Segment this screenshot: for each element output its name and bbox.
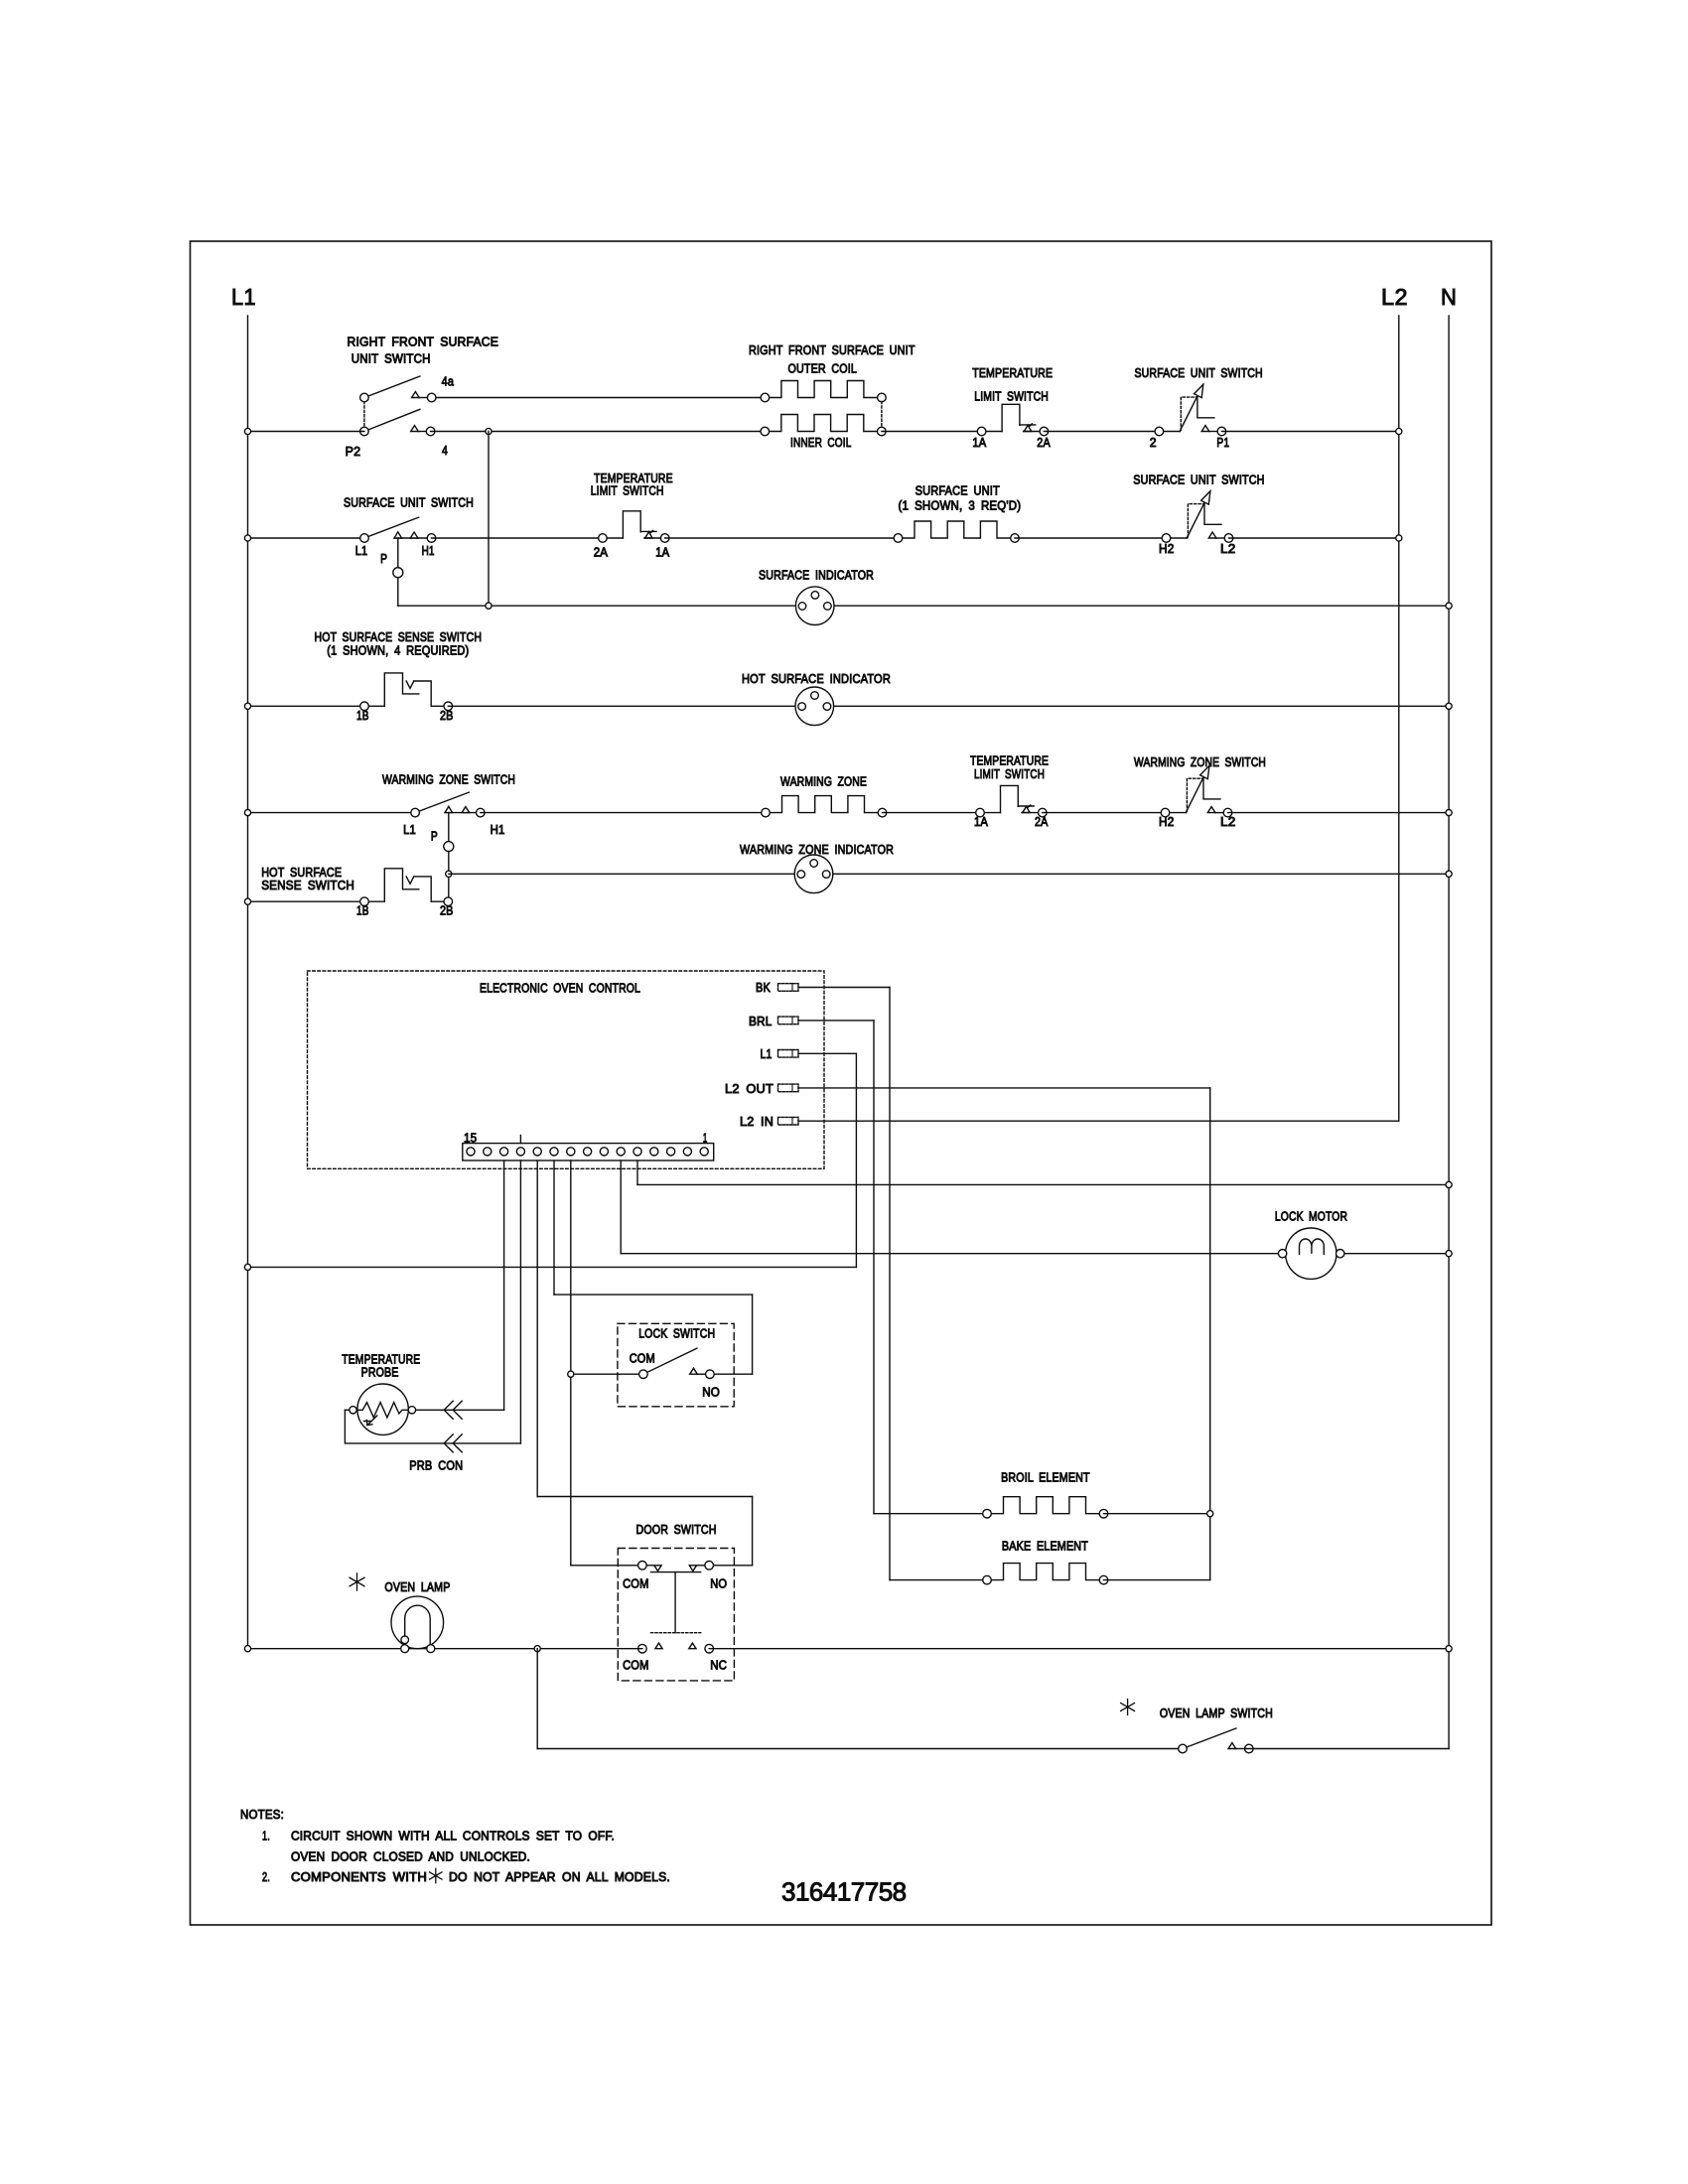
svg-text:LIMIT SWITCH: LIMIT SWITCH [974,766,1045,781]
svg-text:OVEN LAMP: OVEN LAMP [384,1579,450,1594]
svg-text:N: N [1441,284,1457,310]
svg-text:P: P [431,829,438,844]
svg-text:LIMIT SWITCH: LIMIT SWITCH [591,483,664,498]
svg-text:SURFACE UNIT SWITCH: SURFACE UNIT SWITCH [1135,365,1263,380]
svg-text:H2: H2 [1159,541,1175,556]
svg-text:PROBE: PROBE [361,1365,399,1380]
svg-text:(1 SHOWN, 4 REQUIRED): (1 SHOWN, 4 REQUIRED) [327,643,469,658]
svg-text:UNIT SWITCH: UNIT SWITCH [352,351,431,366]
svg-text:BAKE ELEMENT: BAKE ELEMENT [1002,1539,1088,1554]
svg-text:1.: 1. [262,1829,270,1843]
svg-text:2: 2 [1150,435,1157,450]
svg-text:1B: 1B [356,903,369,918]
svg-text:L2 IN: L2 IN [740,1114,774,1129]
svg-text:OVEN DOOR CLOSED AND UNLOCKED.: OVEN DOOR CLOSED AND UNLOCKED. [291,1849,530,1864]
svg-text:P1: P1 [1216,435,1229,450]
svg-text:P: P [380,551,387,566]
svg-text:P2: P2 [346,444,361,459]
svg-text:WARMING ZONE INDICATOR: WARMING ZONE INDICATOR [740,842,894,857]
svg-text:1A: 1A [974,814,988,829]
svg-text:PRB CON: PRB CON [409,1458,463,1473]
svg-text:L2: L2 [1220,814,1236,829]
svg-text:BRL: BRL [749,1014,773,1028]
svg-text:L1: L1 [403,822,416,837]
svg-text:ELECTRONIC OVEN CONTROL: ELECTRONIC OVEN CONTROL [480,981,640,996]
svg-text:COM: COM [623,1576,649,1591]
svg-text:2A: 2A [1035,814,1049,829]
svg-text:TEMPERATURE: TEMPERATURE [972,365,1053,380]
svg-text:HOT SURFACE INDICATOR: HOT SURFACE INDICATOR [742,671,891,686]
svg-text:OUTER COIL: OUTER COIL [788,361,858,376]
svg-text:L1: L1 [355,543,368,558]
svg-text:NO: NO [710,1576,727,1591]
svg-text:L1: L1 [761,1046,773,1061]
svg-text:INNER COIL: INNER COIL [790,435,852,450]
svg-text:WARMING ZONE: WARMING ZONE [780,774,867,789]
svg-text:SURFACE UNIT SWITCH: SURFACE UNIT SWITCH [1133,473,1264,487]
svg-text:15: 15 [464,1131,477,1146]
svg-text:COM: COM [630,1351,655,1366]
svg-text:4: 4 [442,443,448,458]
svg-text:(1 SHOWN, 3 REQ'D): (1 SHOWN, 3 REQ'D) [899,498,1022,513]
svg-text:NC: NC [710,1658,727,1673]
svg-text:WARMING ZONE SWITCH: WARMING ZONE SWITCH [382,772,515,787]
svg-text:1B: 1B [356,708,369,723]
svg-text:SURFACE INDICATOR: SURFACE INDICATOR [759,568,874,583]
svg-text:DO NOT APPEAR ON ALL MODELS.: DO NOT APPEAR ON ALL MODELS. [449,1869,670,1884]
svg-text:OVEN LAMP SWITCH: OVEN LAMP SWITCH [1160,1706,1273,1720]
svg-text:L2: L2 [1381,284,1408,310]
svg-text:BROIL ELEMENT: BROIL ELEMENT [1001,1470,1090,1485]
svg-text:316417758: 316417758 [781,1877,907,1907]
svg-text:RIGHT FRONT SURFACE UNIT: RIGHT FRONT SURFACE UNIT [749,342,915,357]
svg-text:BK: BK [756,980,771,995]
svg-text:SENSE SWITCH: SENSE SWITCH [261,878,354,892]
svg-text:L1: L1 [231,284,256,310]
svg-text:1: 1 [703,1131,708,1146]
svg-text:COMPONENTS WITH: COMPONENTS WITH [291,1869,427,1884]
svg-text:SURFACE UNIT: SURFACE UNIT [915,483,1000,498]
svg-text:NO: NO [702,1385,720,1400]
svg-text:H2: H2 [1159,814,1175,829]
svg-text:2B: 2B [440,903,454,918]
svg-text:COM: COM [623,1658,649,1673]
svg-text:L2: L2 [1220,541,1236,556]
svg-text:2A: 2A [1037,435,1051,450]
svg-text:2A: 2A [594,544,609,559]
svg-text:L2 OUT: L2 OUT [725,1081,774,1096]
svg-text:DOOR SWITCH: DOOR SWITCH [636,1522,717,1537]
svg-text:NOTES:: NOTES: [240,1807,284,1822]
svg-text:2B: 2B [440,708,454,723]
svg-text:RIGHT FRONT SURFACE: RIGHT FRONT SURFACE [348,335,499,349]
svg-text:2.: 2. [262,1869,270,1884]
svg-text:1A: 1A [972,435,986,450]
svg-text:H1: H1 [422,543,435,558]
svg-text:LOCK MOTOR: LOCK MOTOR [1275,1209,1347,1224]
svg-text:4a: 4a [442,373,455,388]
svg-text:WARMING ZONE SWITCH: WARMING ZONE SWITCH [1134,754,1266,769]
svg-text:SURFACE UNIT SWITCH: SURFACE UNIT SWITCH [344,495,474,510]
svg-text:LIMIT SWITCH: LIMIT SWITCH [974,389,1049,404]
svg-text:LOCK SWITCH: LOCK SWITCH [638,1326,715,1341]
svg-text:H1: H1 [491,822,505,837]
svg-text:1A: 1A [655,544,669,559]
svg-text:CIRCUIT SHOWN WITH ALL CONTROL: CIRCUIT SHOWN WITH ALL CONTROLS SET TO O… [291,1829,615,1843]
